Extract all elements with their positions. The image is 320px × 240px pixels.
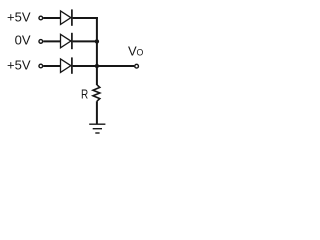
svg-text:0V: 0V bbox=[15, 33, 31, 48]
svg-text:O: O bbox=[137, 47, 144, 57]
svg-text:R: R bbox=[81, 87, 88, 102]
svg-text:+5V: +5V bbox=[7, 9, 31, 24]
svg-text:+5V: +5V bbox=[7, 57, 31, 72]
